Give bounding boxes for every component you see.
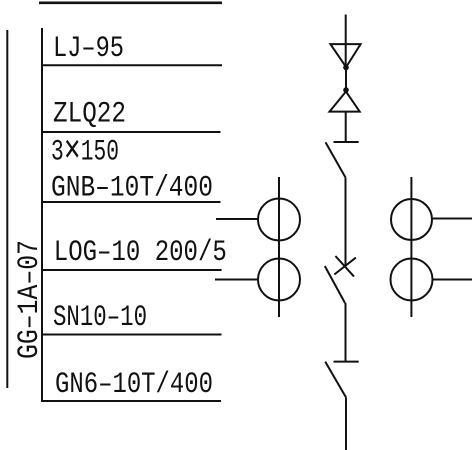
svg-text:ZLQ22: ZLQ22 — [53, 98, 126, 132]
svg-text:LJ–95: LJ–95 — [53, 32, 124, 66]
svg-text:GN6–10T/400: GN6–10T/400 — [55, 368, 213, 402]
svg-text:SN10–10: SN10–10 — [53, 301, 147, 335]
svg-text:GNB–10T/400: GNB–10T/400 — [51, 172, 213, 206]
svg-text:GG–1A–07: GG–1A–07 — [13, 240, 47, 359]
svg-text:3×150: 3×150 — [51, 130, 119, 175]
svg-text:LOG–10 200/5: LOG–10 200/5 — [54, 236, 227, 270]
